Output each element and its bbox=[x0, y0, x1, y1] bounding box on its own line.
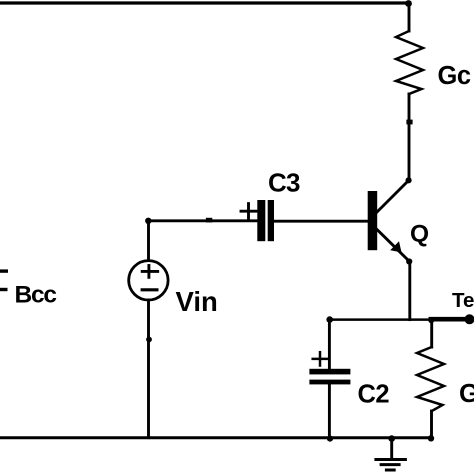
svg-text:Gc: Gc bbox=[438, 62, 471, 90]
svg-text:C2: C2 bbox=[358, 380, 390, 408]
svg-text:Q: Q bbox=[410, 220, 429, 247]
svg-text:Bcc: Bcc bbox=[15, 282, 57, 309]
svg-text:Vin: Vin bbox=[176, 286, 218, 317]
svg-text:C3: C3 bbox=[268, 168, 300, 198]
svg-text:Ge: Ge bbox=[459, 378, 474, 408]
svg-text:Test: Test bbox=[452, 289, 474, 312]
